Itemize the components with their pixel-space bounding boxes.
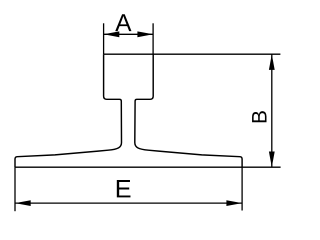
- dimension E left arrowhead: [15, 200, 31, 206]
- rail profile right outline (head side, web, foot slope, foot edge): [135, 54, 242, 167]
- label A: [115, 14, 131, 31]
- dimension B top arrowhead: [269, 54, 275, 70]
- dimension E left extension line: [14, 167, 16, 211]
- label B (rotated): [252, 111, 266, 122]
- dimension B bottom arrowhead: [269, 152, 275, 168]
- rail foot bottom line with B bottom extension line: [15, 166, 281, 168]
- dimension E line: [15, 202, 242, 204]
- rail head top line with B top extension line: [104, 53, 281, 55]
- dimension A left extension line: [103, 23, 105, 54]
- dimension A line: [104, 33, 154, 35]
- dimension E right extension line: [241, 167, 243, 210]
- dimension B line: [271, 54, 273, 167]
- rail profile left outline (head side, web, foot slope, foot edge): [15, 54, 122, 167]
- label E: [117, 180, 131, 197]
- dimension A left arrowhead: [104, 31, 120, 37]
- dimension A right arrowhead: [137, 31, 153, 37]
- dimension A right extension line: [152, 23, 154, 54]
- dimension E right arrowhead: [226, 200, 242, 206]
